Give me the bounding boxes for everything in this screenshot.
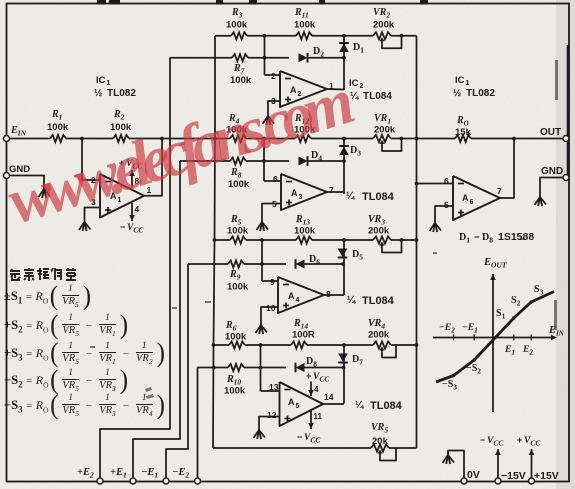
- svg-text:200k: 200k: [374, 125, 396, 136]
- svg-text:VCC: VCC: [304, 433, 321, 445]
- svg-text:0V: 0V: [467, 469, 480, 481]
- terminal GND right: [563, 175, 569, 181]
- resistor R9: [228, 260, 244, 267]
- wire A2 pin3 ground: [268, 101, 280, 116]
- formula +S2: [4, 313, 130, 339]
- ground symbol (A2 pin3): [263, 116, 269, 124]
- ground symbol (A5 pin12): [254, 430, 260, 438]
- svg-text:100k: 100k: [227, 282, 249, 293]
- wire A1 pin3 to ground: [85, 208, 101, 223]
- op-amp A1: [100, 174, 144, 218]
- resistor R2: [113, 135, 129, 142]
- potentiometer VR2: [373, 32, 391, 39]
- svg-text:TL084: TL084: [370, 400, 403, 412]
- graph ticks: [453, 335, 455, 341]
- diode D1: [343, 36, 345, 90]
- svg-text:200k: 200k: [368, 226, 390, 237]
- resistor R3: [231, 32, 247, 39]
- svg-text:100k: 100k: [224, 386, 246, 397]
- svg-text:¼: ¼: [350, 91, 359, 102]
- svg-text:A: A: [288, 291, 295, 301]
- svg-text:A: A: [462, 193, 469, 203]
- svg-text:100k: 100k: [225, 332, 247, 343]
- svg-text:7: 7: [497, 186, 502, 196]
- wire A2 output: [327, 88, 344, 91]
- A5 -VCC pin 11: [310, 409, 312, 429]
- svg-text:IC: IC: [455, 75, 465, 86]
- ground symbol (0V): [443, 455, 449, 463]
- wire A6 output: [500, 139, 514, 199]
- svg-text:TL084: TL084: [362, 191, 395, 203]
- svg-text:11: 11: [314, 412, 323, 421]
- potentiometer VR4: [373, 341, 391, 348]
- svg-text:15k: 15k: [455, 127, 472, 138]
- terminal E_IN: [4, 136, 10, 142]
- terminal GND left: [4, 173, 10, 179]
- wire A4 output: [324, 294, 344, 296]
- terminal OUT: [563, 136, 569, 142]
- svg-text:20k: 20k: [372, 436, 389, 447]
- svg-text:4: 4: [314, 385, 319, 394]
- svg-text:−: −: [297, 432, 302, 442]
- terminal -15V: [495, 478, 501, 484]
- svg-text:100k: 100k: [294, 20, 316, 31]
- graph E_OUT axis: [492, 274, 494, 412]
- wire A5 summing rail R10 D8: [198, 367, 229, 369]
- svg-text:¼: ¼: [355, 400, 364, 411]
- svg-text:12: 12: [267, 410, 277, 420]
- svg-text:100k: 100k: [230, 75, 252, 86]
- diode D4: [299, 157, 308, 166]
- ground symbol (A4 pin10): [256, 325, 262, 333]
- op-amp A3: [281, 174, 327, 210]
- scan marks top edge: [97, 0, 106, 5]
- ground symbol (A3 pin5): [257, 222, 263, 230]
- potentiometer VR3: [373, 236, 391, 243]
- wire A6 pin6 from rail: [417, 183, 454, 185]
- ground symbol (GND left): [39, 189, 45, 197]
- svg-text:10: 10: [266, 303, 276, 313]
- terminal +15V: [529, 478, 535, 484]
- svg-text:VCC: VCC: [313, 372, 330, 384]
- op-amp A6: [453, 176, 500, 220]
- svg-text:¼: ¼: [346, 191, 355, 202]
- svg-text:2: 2: [360, 83, 364, 90]
- terminal +E1: [130, 478, 136, 484]
- resistor R0: [455, 135, 471, 142]
- svg-text:−: −: [474, 232, 480, 243]
- wire -E2 feed vertical: [197, 368, 199, 482]
- svg-text:TL084: TL084: [362, 295, 395, 307]
- wire VR5 rail: [213, 447, 371, 449]
- svg-text:100k: 100k: [226, 20, 248, 31]
- graph E_IN axis: [433, 337, 552, 339]
- svg-text:14: 14: [324, 392, 334, 402]
- diode D8: [296, 363, 305, 372]
- ground symbol (A6 pin5): [430, 223, 436, 231]
- node A1 inverting input wire: [80, 137, 84, 141]
- svg-text:5: 5: [444, 200, 449, 210]
- wire A2 summing rail R7 D2: [170, 57, 232, 59]
- wire -15V supply -VCC: [497, 449, 499, 478]
- wire E_IN distribution vertical: [214, 36, 216, 139]
- wire A5 output: [323, 403, 344, 405]
- wire GND to ground: [9, 176, 44, 190]
- svg-text:IC: IC: [349, 78, 359, 89]
- svg-text:100k: 100k: [47, 122, 69, 133]
- ground symbol (GND right): [535, 197, 541, 205]
- svg-text:−: −: [480, 435, 485, 445]
- right border heavy segment: [567, 45, 570, 175]
- node A5 summing junction: [259, 343, 263, 347]
- node A3 summing junction: [262, 137, 266, 141]
- wire +E1 feed vertical: [133, 161, 180, 481]
- svg-text:VCC: VCC: [524, 436, 541, 448]
- svg-text:200k: 200k: [373, 20, 395, 31]
- op-amp A2: [280, 71, 327, 107]
- scan smudge marks: [90, 60, 558, 399]
- diode D7: [343, 345, 345, 404]
- svg-text:100R: 100R: [292, 330, 315, 341]
- graph transfer curve: [436, 292, 554, 383]
- svg-text:9: 9: [270, 277, 275, 287]
- wire A4 rail R5 R13 VR3: [215, 239, 231, 241]
- resistor R7: [232, 54, 248, 61]
- resistor R12: [295, 135, 311, 142]
- op-amp A4: [278, 277, 324, 313]
- wire main bus E_IN to OUT: [7, 138, 51, 140]
- svg-text:−15V: −15V: [501, 470, 526, 482]
- svg-text:−E1: −E1: [462, 323, 478, 335]
- formula +-S1: [4, 284, 93, 310]
- wire +15V supply +VCC: [531, 449, 533, 478]
- resistor R13: [296, 236, 312, 243]
- formula -S3: [4, 393, 166, 419]
- resistor R10: [228, 364, 244, 371]
- resistor R14: [291, 341, 307, 348]
- svg-text:1S1588: 1S1588: [498, 231, 534, 243]
- wire output summing rail vertical right: [416, 36, 418, 448]
- diode D2: [299, 53, 308, 62]
- resistor R5: [230, 236, 246, 243]
- wire A2 rail R3 R11 VR2: [215, 35, 231, 37]
- svg-text:VCC: VCC: [487, 436, 504, 448]
- svg-text:TL082: TL082: [107, 88, 136, 99]
- svg-text:+15V: +15V: [534, 470, 559, 482]
- diode D6: [296, 260, 305, 269]
- wire A1 output feedback: [144, 139, 162, 196]
- svg-text:½: ½: [453, 88, 461, 99]
- svg-text:6: 6: [470, 199, 474, 206]
- svg-text:−: −: [120, 222, 125, 232]
- svg-text:GND: GND: [541, 166, 563, 177]
- svg-text:½: ½: [94, 88, 102, 99]
- wire A4 pin10 ground: [261, 307, 278, 325]
- svg-text:2: 2: [271, 71, 276, 81]
- node A4 summing junction: [260, 238, 264, 242]
- resistor R4: [230, 135, 246, 142]
- wire A3 output: [327, 191, 344, 193]
- svg-text:IC: IC: [96, 75, 106, 86]
- wire 0V to ground: [448, 451, 464, 479]
- wire GND right to ground: [540, 178, 563, 198]
- label set-slope heading (Chinese): [9, 268, 77, 281]
- svg-text:13: 13: [269, 382, 279, 392]
- resistor R6: [229, 341, 245, 348]
- formula +S3: [4, 341, 166, 367]
- A1 +VCC pin 8: [131, 170, 133, 188]
- A1 -VCC pin 4: [131, 203, 133, 221]
- wire A3 pin5 ground: [262, 204, 281, 223]
- terminal -E2: [195, 478, 201, 484]
- svg-text:A: A: [288, 397, 295, 407]
- resistor R11: [296, 32, 312, 39]
- terminal +E2: [97, 478, 103, 484]
- wire A6 pin5 ground: [435, 206, 453, 223]
- formula -S2: [4, 368, 130, 394]
- potentiometer VR5: [371, 444, 389, 451]
- svg-text:VCC: VCC: [127, 223, 144, 235]
- svg-text:1: 1: [466, 80, 470, 87]
- svg-text:8: 8: [326, 289, 331, 299]
- wire -E1 feed vertical: [166, 264, 188, 481]
- resistor R1: [50, 135, 66, 142]
- svg-text:100k: 100k: [227, 226, 249, 237]
- svg-text:1: 1: [107, 80, 111, 87]
- svg-text:7: 7: [329, 185, 334, 195]
- svg-text:3: 3: [299, 194, 303, 201]
- svg-text:TL084: TL084: [363, 91, 392, 102]
- node A2 summing junction: [263, 34, 267, 38]
- potentiometer VR1: [373, 135, 391, 142]
- svg-text:6: 6: [444, 176, 449, 186]
- svg-text:E2: E2: [522, 345, 533, 357]
- svg-text:+: +: [306, 371, 311, 381]
- svg-text:100k: 100k: [294, 226, 316, 237]
- wire A5 pin12 ground: [259, 417, 280, 431]
- svg-text:+: +: [517, 435, 522, 445]
- diode D5: [343, 240, 345, 295]
- wire A5 rail R6 R14 VR4: [214, 344, 230, 346]
- wire +E2 feed vertical: [100, 58, 170, 481]
- svg-text:4: 4: [296, 297, 300, 304]
- diode D3: [343, 139, 345, 195]
- op-amp A5: [280, 382, 324, 426]
- svg-text:E1: E1: [504, 345, 515, 357]
- svg-text:A: A: [291, 188, 298, 198]
- terminal -E1: [163, 478, 169, 484]
- svg-text:−E2: −E2: [439, 323, 455, 335]
- ground symbol (A1 pin3): [79, 222, 85, 230]
- svg-text:OUT: OUT: [540, 127, 561, 138]
- terminal 0V: [461, 478, 467, 484]
- svg-text:5: 5: [296, 403, 300, 410]
- svg-text:200k: 200k: [368, 330, 390, 341]
- svg-text:¼: ¼: [347, 295, 356, 306]
- resistor R8: [230, 157, 246, 164]
- svg-text:TL082: TL082: [466, 88, 495, 99]
- watermark www.elecfans.com: [1, 72, 358, 252]
- wire A4 summing rail R9 D6: [188, 263, 228, 265]
- wire A3 summing rail R8 D4: [180, 160, 230, 162]
